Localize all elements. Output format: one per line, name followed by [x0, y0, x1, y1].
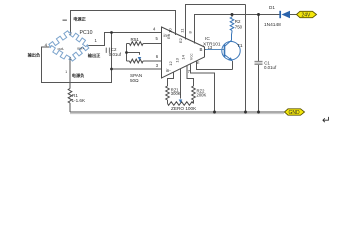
wire IC pin B to transistor base	[205, 49, 206, 51]
resistor RZ2	[192, 86, 196, 100]
wire bridge bottom to R1	[69, 60, 71, 89]
capacitor C1	[255, 62, 263, 65]
wire IC pin E to emitter line	[197, 61, 233, 69]
wire bottom rail shadow	[70, 113, 284, 115]
svg-text:E2: E2	[178, 37, 183, 43]
wire R51 row leads	[127, 43, 130, 45]
svg-text:1N4148: 1N4148	[264, 22, 281, 28]
wire IC pin 7 to bottom rail	[191, 64, 215, 112]
bridge arm top-left	[49, 31, 70, 47]
svg-text:out+: out+	[77, 47, 85, 51]
svg-text:300K: 300K	[171, 91, 181, 96]
wiper arrow SPAN	[138, 57, 142, 60]
junction dots	[110, 13, 260, 114]
svg-text:IC: IC	[205, 36, 210, 42]
svg-text:50Ω: 50Ω	[130, 78, 139, 83]
svg-text:ZERO 100K: ZERO 100K	[171, 106, 197, 111]
wire C2 riser	[111, 33, 113, 70]
wire R2 top lead	[231, 15, 233, 18]
wire right V+ vertical	[245, 5, 247, 113]
connector GND	[285, 109, 305, 115]
svg-text:R2: R2	[235, 19, 241, 24]
wiper arrow ZERO	[179, 100, 183, 103]
svg-text:0.01uf: 0.01uf	[109, 52, 122, 57]
wire span box left edge	[126, 44, 128, 62]
wire RZ2 bottom to pot	[193, 100, 195, 104]
svg-text:750: 750	[235, 25, 243, 30]
svg-text:3: 3	[69, 57, 71, 61]
wire pin 8 rail to diode	[195, 15, 281, 44]
capacitor C2	[106, 48, 109, 53]
svg-text:电源负: 电源负	[72, 72, 85, 79]
svg-text:B: B	[200, 47, 203, 52]
svg-text:200K: 200K	[197, 92, 207, 97]
svg-text:24V: 24V	[302, 13, 312, 19]
wire span pot row leads	[127, 60, 130, 62]
svg-text:4: 4	[153, 27, 156, 32]
wire RZ1 top lead	[168, 72, 174, 86]
node span wiper	[125, 51, 128, 54]
svg-text:3: 3	[156, 63, 159, 68]
svg-text:1: 1	[95, 38, 98, 43]
tick dash	[63, 20, 67, 21]
transistor T1	[206, 31, 241, 61]
node rail c	[257, 111, 260, 114]
bridge arm bottom-right	[70, 46, 89, 62]
svg-text:5: 5	[156, 36, 159, 41]
wire bottom rail	[70, 111, 285, 113]
wire RZ2 top lead	[187, 66, 194, 86]
bridge arm top-right	[70, 32, 89, 47]
wire C1 vertical upper	[258, 15, 260, 62]
wire top rail bridge top to pin 10	[71, 11, 176, 36]
svg-text:out-: out-	[58, 47, 65, 51]
resistor R2 blue	[230, 17, 234, 31]
svg-text:↵: ↵	[322, 115, 331, 127]
node rail b	[244, 111, 247, 114]
node in-	[110, 68, 113, 71]
wire in+ to IC pin 4	[112, 32, 162, 34]
svg-text:R51: R51	[131, 37, 140, 42]
connector 24V	[297, 11, 317, 17]
node R2 top	[231, 13, 234, 16]
wire C1 vertical lower	[258, 64, 260, 112]
bridge arm bottom-left	[49, 46, 70, 60]
wire RZ1 bottom to pot	[167, 100, 169, 104]
svg-text:0.01uf: 0.01uf	[264, 65, 277, 70]
node rail a	[213, 111, 216, 114]
svg-text:输出负: 输出负	[28, 52, 41, 59]
emitter arrow	[228, 57, 233, 61]
svg-text:Vcc: Vcc	[189, 54, 194, 61]
svg-text:in-: in-	[166, 68, 171, 73]
svg-text:1: 1	[65, 70, 67, 74]
wire zero wiper lead	[180, 69, 182, 99]
resistor R51	[129, 42, 143, 46]
wire R1 bottom to rail	[69, 103, 71, 112]
wire out- left loop	[42, 47, 112, 83]
wire emitter down joining V+ vertical	[232, 61, 234, 70]
op-amp XTR101 body	[162, 27, 205, 78]
svg-text:13: 13	[174, 57, 179, 62]
wire bridge out+ jog to in+ node	[88, 33, 111, 46]
svg-text:输出正: 输出正	[88, 52, 101, 59]
svg-text:8: 8	[188, 31, 193, 34]
potentiometer ZERO	[168, 102, 194, 106]
svg-text:PC10: PC10	[80, 30, 93, 36]
svg-text:E: E	[197, 60, 200, 65]
svg-text:11: 11	[179, 28, 184, 33]
potentiometer SPAN	[129, 59, 143, 63]
resistor RZ1	[166, 86, 170, 100]
wire span wiper link	[127, 53, 140, 55]
svg-text:GND: GND	[289, 110, 301, 116]
svg-text:10: 10	[168, 28, 173, 33]
svg-text:1-1.6K: 1-1.6K	[72, 98, 86, 103]
resistor R1	[68, 89, 72, 104]
node in+	[110, 31, 113, 34]
node D1 C1	[257, 13, 260, 16]
svg-text:D1: D1	[269, 5, 275, 10]
wire in- node to IC pin 3	[112, 68, 162, 70]
svg-text:6: 6	[156, 54, 159, 59]
svg-text:电源正: 电源正	[73, 16, 86, 23]
svg-text:T1: T1	[237, 43, 243, 49]
wire pin 11 rail	[186, 5, 246, 40]
svg-text:2: 2	[70, 32, 72, 36]
svg-text:14: 14	[180, 54, 185, 59]
diode D1	[282, 11, 291, 18]
strain gauge bridge PC10	[49, 31, 89, 61]
svg-text:12: 12	[168, 60, 173, 65]
svg-text:E1: E1	[166, 33, 171, 39]
